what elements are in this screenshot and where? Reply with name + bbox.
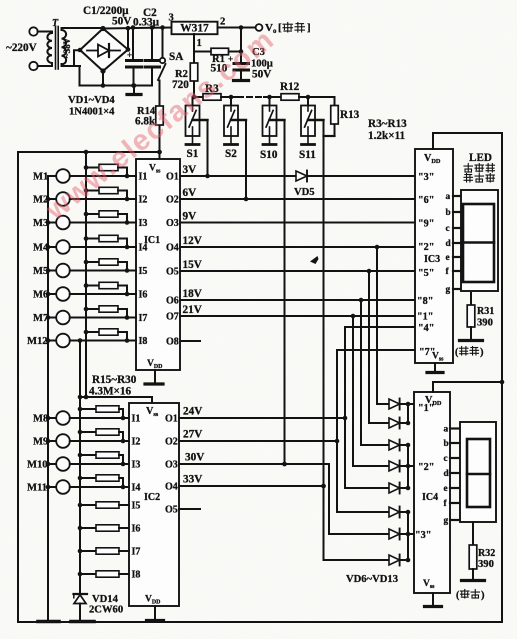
wire 21V line <box>180 315 415 317</box>
AC input terminal upper <box>29 27 37 35</box>
diode VD13 <box>389 555 400 565</box>
svg-text:M6: M6 <box>33 290 48 301</box>
resistor IC2 row5 <box>80 504 96 506</box>
svg-text:33V: 33V <box>183 474 202 486</box>
svg-text:M4: M4 <box>33 243 49 254</box>
svg-text:M12: M12 <box>27 336 48 347</box>
switch S11 <box>307 97 309 106</box>
resistor IC2 row3 <box>80 454 96 456</box>
wire S11 drop <box>323 120 325 486</box>
terminal M11 <box>48 486 57 488</box>
svg-text:4.3M×16: 4.3M×16 <box>89 386 132 398</box>
resistor R21 <box>86 308 99 310</box>
resistor IC2 row6 <box>80 527 96 529</box>
svg-text:~38V: ~38V <box>62 37 72 58</box>
diode VD5 <box>296 171 307 181</box>
wire top rail <box>103 28 172 29</box>
svg-text:3: 3 <box>169 13 174 24</box>
wire left bus <box>47 176 49 622</box>
svg-text:"6": "6" <box>418 195 434 206</box>
svg-text:M7: M7 <box>33 313 49 324</box>
terminal M6 <box>48 293 57 295</box>
svg-text:O1: O1 <box>165 414 178 425</box>
svg-text:O8: O8 <box>166 337 179 348</box>
svg-text:): ) <box>480 347 484 358</box>
svg-text:21V: 21V <box>183 304 202 316</box>
diode VD11 <box>389 507 400 517</box>
switch SA <box>162 28 164 59</box>
svg-text:c: c <box>444 454 448 464</box>
svg-text:"2": "2" <box>418 462 434 473</box>
wire 27V line <box>179 440 337 442</box>
IC2 box <box>129 403 179 606</box>
svg-text:VD1~VD4: VD1~VD4 <box>68 95 115 106</box>
resistor R22 <box>86 331 99 333</box>
wire riser 18V <box>360 300 362 445</box>
svg-text:g: g <box>444 516 449 526</box>
svg-text:d: d <box>446 239 452 249</box>
svg-text:R12: R12 <box>280 81 300 93</box>
resistor IC2 row2 <box>80 431 96 433</box>
wire rail to R13 <box>299 96 335 98</box>
label shumaguang <box>464 174 473 183</box>
svg-text:"5": "5" <box>418 268 434 279</box>
svg-text:[: [ <box>278 22 282 34</box>
wire IC1 vss tap <box>159 152 161 159</box>
svg-text:M8: M8 <box>33 414 48 425</box>
ground R31 <box>460 339 483 342</box>
svg-text:I7: I7 <box>132 547 141 558</box>
LED display units box <box>461 190 498 291</box>
diode VD10 <box>389 483 400 493</box>
svg-text:VD14: VD14 <box>92 594 119 605</box>
svg-text:2CW60: 2CW60 <box>89 605 123 616</box>
svg-text:2: 2 <box>220 17 225 28</box>
svg-text:I8: I8 <box>132 570 141 581</box>
wire vd bus3 <box>399 533 414 535</box>
svg-text:R31: R31 <box>477 306 494 317</box>
capacitor C3 <box>240 28 242 64</box>
seven-seg units <box>463 204 494 282</box>
svg-text:I1: I1 <box>139 172 148 183</box>
svg-text:"2": "2" <box>418 242 434 253</box>
svg-text:c: c <box>446 224 450 234</box>
wire 18V line <box>180 299 415 301</box>
resistor R14 <box>159 81 161 107</box>
wire 30V line <box>179 463 329 465</box>
wire pin1 <box>193 34 195 52</box>
svg-text:d: d <box>444 469 450 479</box>
svg-text:a: a <box>446 192 451 202</box>
svg-text:18V: 18V <box>183 288 202 300</box>
svg-text:+: + <box>127 50 132 60</box>
ground below bridge <box>133 86 135 94</box>
svg-text:W317: W317 <box>180 23 209 35</box>
terminal M3 <box>48 222 57 224</box>
svg-text:b: b <box>444 439 449 449</box>
wire 6V line <box>180 198 415 200</box>
wire 15V line <box>180 270 415 272</box>
wire bridge bottom down <box>102 71 104 86</box>
svg-text:M11: M11 <box>27 483 47 494</box>
resistor R2 <box>193 52 195 64</box>
svg-text:a: a <box>444 425 449 435</box>
switch S1 <box>192 97 194 106</box>
resistor R1 <box>194 51 211 53</box>
switch S10 <box>269 97 271 106</box>
diode VD12 <box>389 529 400 539</box>
svg-text:IC3: IC3 <box>424 254 440 265</box>
wire S2 drop <box>245 120 247 199</box>
svg-text:I5: I5 <box>132 501 141 512</box>
resistor R31 <box>470 293 472 305</box>
wire frame left <box>17 152 19 622</box>
svg-text:R13: R13 <box>340 109 360 121</box>
svg-text:30V: 30V <box>185 452 204 464</box>
resistor R18 <box>86 238 99 240</box>
IC3 pin stubs <box>453 195 461 197</box>
svg-text:b: b <box>446 208 451 218</box>
svg-text:27V: 27V <box>183 429 202 441</box>
wire vd bus1 <box>399 403 414 405</box>
wire vd bus2 <box>399 465 414 467</box>
resistor R17 <box>86 213 99 215</box>
wire 3V line <box>180 175 296 177</box>
wire O5 stub <box>179 508 200 510</box>
wire 24V line <box>179 417 345 419</box>
wire 33V line <box>179 485 324 487</box>
IC1 ground <box>154 370 156 382</box>
svg-text:M5: M5 <box>33 266 48 277</box>
label gongyinji <box>464 164 473 173</box>
svg-text:M3: M3 <box>33 218 48 229</box>
wire secondary bottom <box>62 65 81 67</box>
svg-text:O1: O1 <box>166 172 179 183</box>
svg-text:"1": "1" <box>417 312 433 323</box>
svg-text:O5: O5 <box>166 267 179 278</box>
svg-text:12V: 12V <box>183 235 202 247</box>
svg-text:9V: 9V <box>183 211 197 223</box>
IC4 ground <box>432 593 434 605</box>
svg-text:O2: O2 <box>165 437 178 448</box>
wire riser 21V <box>352 316 354 466</box>
svg-text:IC2: IC2 <box>144 492 160 503</box>
terminal M1 <box>48 175 57 177</box>
svg-text:I1: I1 <box>132 414 141 425</box>
AC input terminal lower <box>29 62 37 70</box>
wire S10 drop <box>284 120 286 464</box>
wire 12V line <box>180 246 415 248</box>
capacitor C1 <box>132 28 134 60</box>
wire rail r3-s2 <box>221 96 238 98</box>
switch S2 <box>230 97 232 106</box>
wire vdd top rail <box>433 132 502 134</box>
svg-text:"1": "1" <box>418 403 434 414</box>
svg-text:S11: S11 <box>299 149 316 161</box>
svg-text:(: ( <box>455 347 459 358</box>
wire O8 stub <box>180 340 200 342</box>
svg-text:3V: 3V <box>183 164 197 176</box>
svg-text:M10: M10 <box>27 460 48 471</box>
wire S1 drop <box>207 120 209 176</box>
diode VD7 <box>389 418 400 428</box>
wire riser 15V <box>368 271 370 423</box>
svg-text:VD6~VD13: VD6~VD13 <box>346 574 398 585</box>
wire riser 12V <box>376 247 378 404</box>
svg-text:(: ( <box>456 590 460 601</box>
svg-text:"4": "4" <box>418 323 434 334</box>
resistor IC2 row4 <box>80 477 96 479</box>
svg-text:R15~R30: R15~R30 <box>92 374 137 386</box>
capacitor C2 <box>151 28 153 60</box>
svg-text:I3: I3 <box>132 460 141 471</box>
svg-text:24V: 24V <box>183 406 202 418</box>
resistor IC2 row1 <box>80 408 96 410</box>
svg-text:I4: I4 <box>139 243 148 254</box>
IC4 box <box>414 392 450 593</box>
wire 9V line <box>180 222 415 224</box>
wire rail s10 <box>264 96 281 98</box>
svg-text:390: 390 <box>477 318 493 329</box>
svg-text:g: g <box>446 285 451 295</box>
svg-text:I8: I8 <box>139 336 148 347</box>
svg-text:): ) <box>481 590 485 601</box>
terminal M2 <box>48 198 57 200</box>
svg-text:S1: S1 <box>187 148 199 160</box>
bridge rectifier VD1-VD4 <box>80 29 128 72</box>
svg-text:"9": "9" <box>418 219 434 230</box>
watermark www.elecfans.com <box>40 23 281 227</box>
svg-text:O6: O6 <box>166 296 179 307</box>
svg-text:1.2k×11: 1.2k×11 <box>368 130 406 142</box>
IC2 ground <box>154 606 156 619</box>
resistor IC2 row7 <box>80 550 96 552</box>
svg-text:S10: S10 <box>260 149 278 161</box>
resistor R13 <box>334 97 336 106</box>
svg-text:"3": "3" <box>415 530 431 541</box>
resistor R32 <box>472 522 474 545</box>
scan noise <box>0 0 1 1</box>
terminal M9 <box>48 440 57 442</box>
svg-text:e: e <box>444 484 448 494</box>
svg-text:VD5: VD5 <box>294 187 315 198</box>
diode VD9 <box>389 461 400 471</box>
wire R13 bottom <box>324 135 335 137</box>
svg-text:"3": "3" <box>418 172 434 183</box>
svg-text:M9: M9 <box>33 437 48 448</box>
wire secondary top to bridge <box>62 27 104 29</box>
svg-text:R3~R13: R3~R13 <box>368 118 407 130</box>
wire rail dashed <box>238 96 264 98</box>
terminal M10 <box>48 463 57 465</box>
resistor IC2 row8 <box>80 573 96 575</box>
resistor R12 <box>281 94 299 101</box>
terminal Vo <box>256 24 263 31</box>
wire riser 30V <box>329 464 389 534</box>
wire IC3 vdd <box>432 133 434 149</box>
svg-text:"8": "8" <box>417 296 433 307</box>
IC1 box <box>136 159 180 370</box>
svg-text:I4: I4 <box>132 483 141 494</box>
svg-text:O4: O4 <box>165 482 178 493</box>
svg-text:SA: SA <box>169 51 183 63</box>
wire bus86 <box>85 152 87 397</box>
IC4 pin stubs <box>450 427 460 429</box>
diode VD8 <box>389 440 400 450</box>
regulator W317 <box>172 22 218 35</box>
svg-text:I6: I6 <box>132 524 141 535</box>
svg-text:6V: 6V <box>183 187 197 199</box>
svg-text:390: 390 <box>478 559 494 570</box>
wire bus80 <box>79 341 81 591</box>
svg-text:O2: O2 <box>166 195 179 206</box>
IC3 ground <box>434 363 436 371</box>
wire frame right rail <box>501 133 503 622</box>
svg-text:S2: S2 <box>225 148 237 160</box>
svg-text:M1: M1 <box>33 172 48 183</box>
resistor R19 <box>86 261 99 263</box>
svg-text:]: ] <box>307 22 311 34</box>
svg-text:I5: I5 <box>139 266 148 277</box>
LED display tens box <box>460 422 496 522</box>
svg-text:1: 1 <box>197 38 202 49</box>
svg-text:IC4: IC4 <box>422 492 438 503</box>
svg-text:R32: R32 <box>478 548 495 559</box>
transformer T <box>49 31 52 33</box>
svg-text:O7: O7 <box>166 312 179 323</box>
wire frame bottom <box>18 621 502 623</box>
svg-text:I2: I2 <box>139 195 148 206</box>
terminal M5 <box>48 270 57 272</box>
svg-text:O4: O4 <box>166 243 179 254</box>
svg-text:~220V: ~220V <box>6 42 37 54</box>
svg-text:0.33µ: 0.33µ <box>133 17 160 29</box>
svg-text:T: T <box>52 18 59 29</box>
wire IC4 vdd <box>433 382 502 392</box>
svg-text:I7: I7 <box>139 313 148 324</box>
terminal M4 <box>48 246 57 248</box>
svg-text:15V: 15V <box>183 259 202 271</box>
wire bottom rail <box>80 85 153 87</box>
diode VD6 <box>389 399 400 409</box>
wire ic2 vss line <box>80 396 152 398</box>
resistor R16 <box>86 190 99 192</box>
smudge <box>310 256 319 264</box>
svg-text:I2: I2 <box>132 437 141 448</box>
svg-text:O3: O3 <box>165 460 178 471</box>
resistor R20 <box>86 285 99 287</box>
wire W317 out <box>218 27 256 29</box>
svg-text:LED: LED <box>469 152 492 164</box>
svg-text:O5: O5 <box>165 505 178 516</box>
resistor R15 <box>86 167 99 169</box>
svg-text:e: e <box>446 253 450 263</box>
svg-text:I6: I6 <box>139 290 148 301</box>
resistor R3 <box>203 94 221 101</box>
svg-text:O3: O3 <box>166 218 179 229</box>
wire bridge left corner down <box>74 50 80 66</box>
IC3 box <box>415 149 453 363</box>
terminal M7 <box>48 317 57 319</box>
seven-seg tens <box>467 439 490 507</box>
ground R32 <box>462 579 485 582</box>
terminal M12 <box>48 340 57 342</box>
terminal M8 <box>48 417 57 419</box>
ground below C3 <box>234 79 249 82</box>
wire riser 27V <box>337 350 414 512</box>
svg-text:1N4001×4: 1N4001×4 <box>69 107 115 118</box>
zener VD14 <box>79 574 81 595</box>
svg-text:I3: I3 <box>139 218 148 229</box>
wire riser 33V <box>324 486 390 560</box>
wire riser 24V <box>345 327 414 488</box>
wire chain rail <box>194 96 203 98</box>
svg-text:50V: 50V <box>112 16 131 28</box>
wire frame top <box>18 151 160 153</box>
